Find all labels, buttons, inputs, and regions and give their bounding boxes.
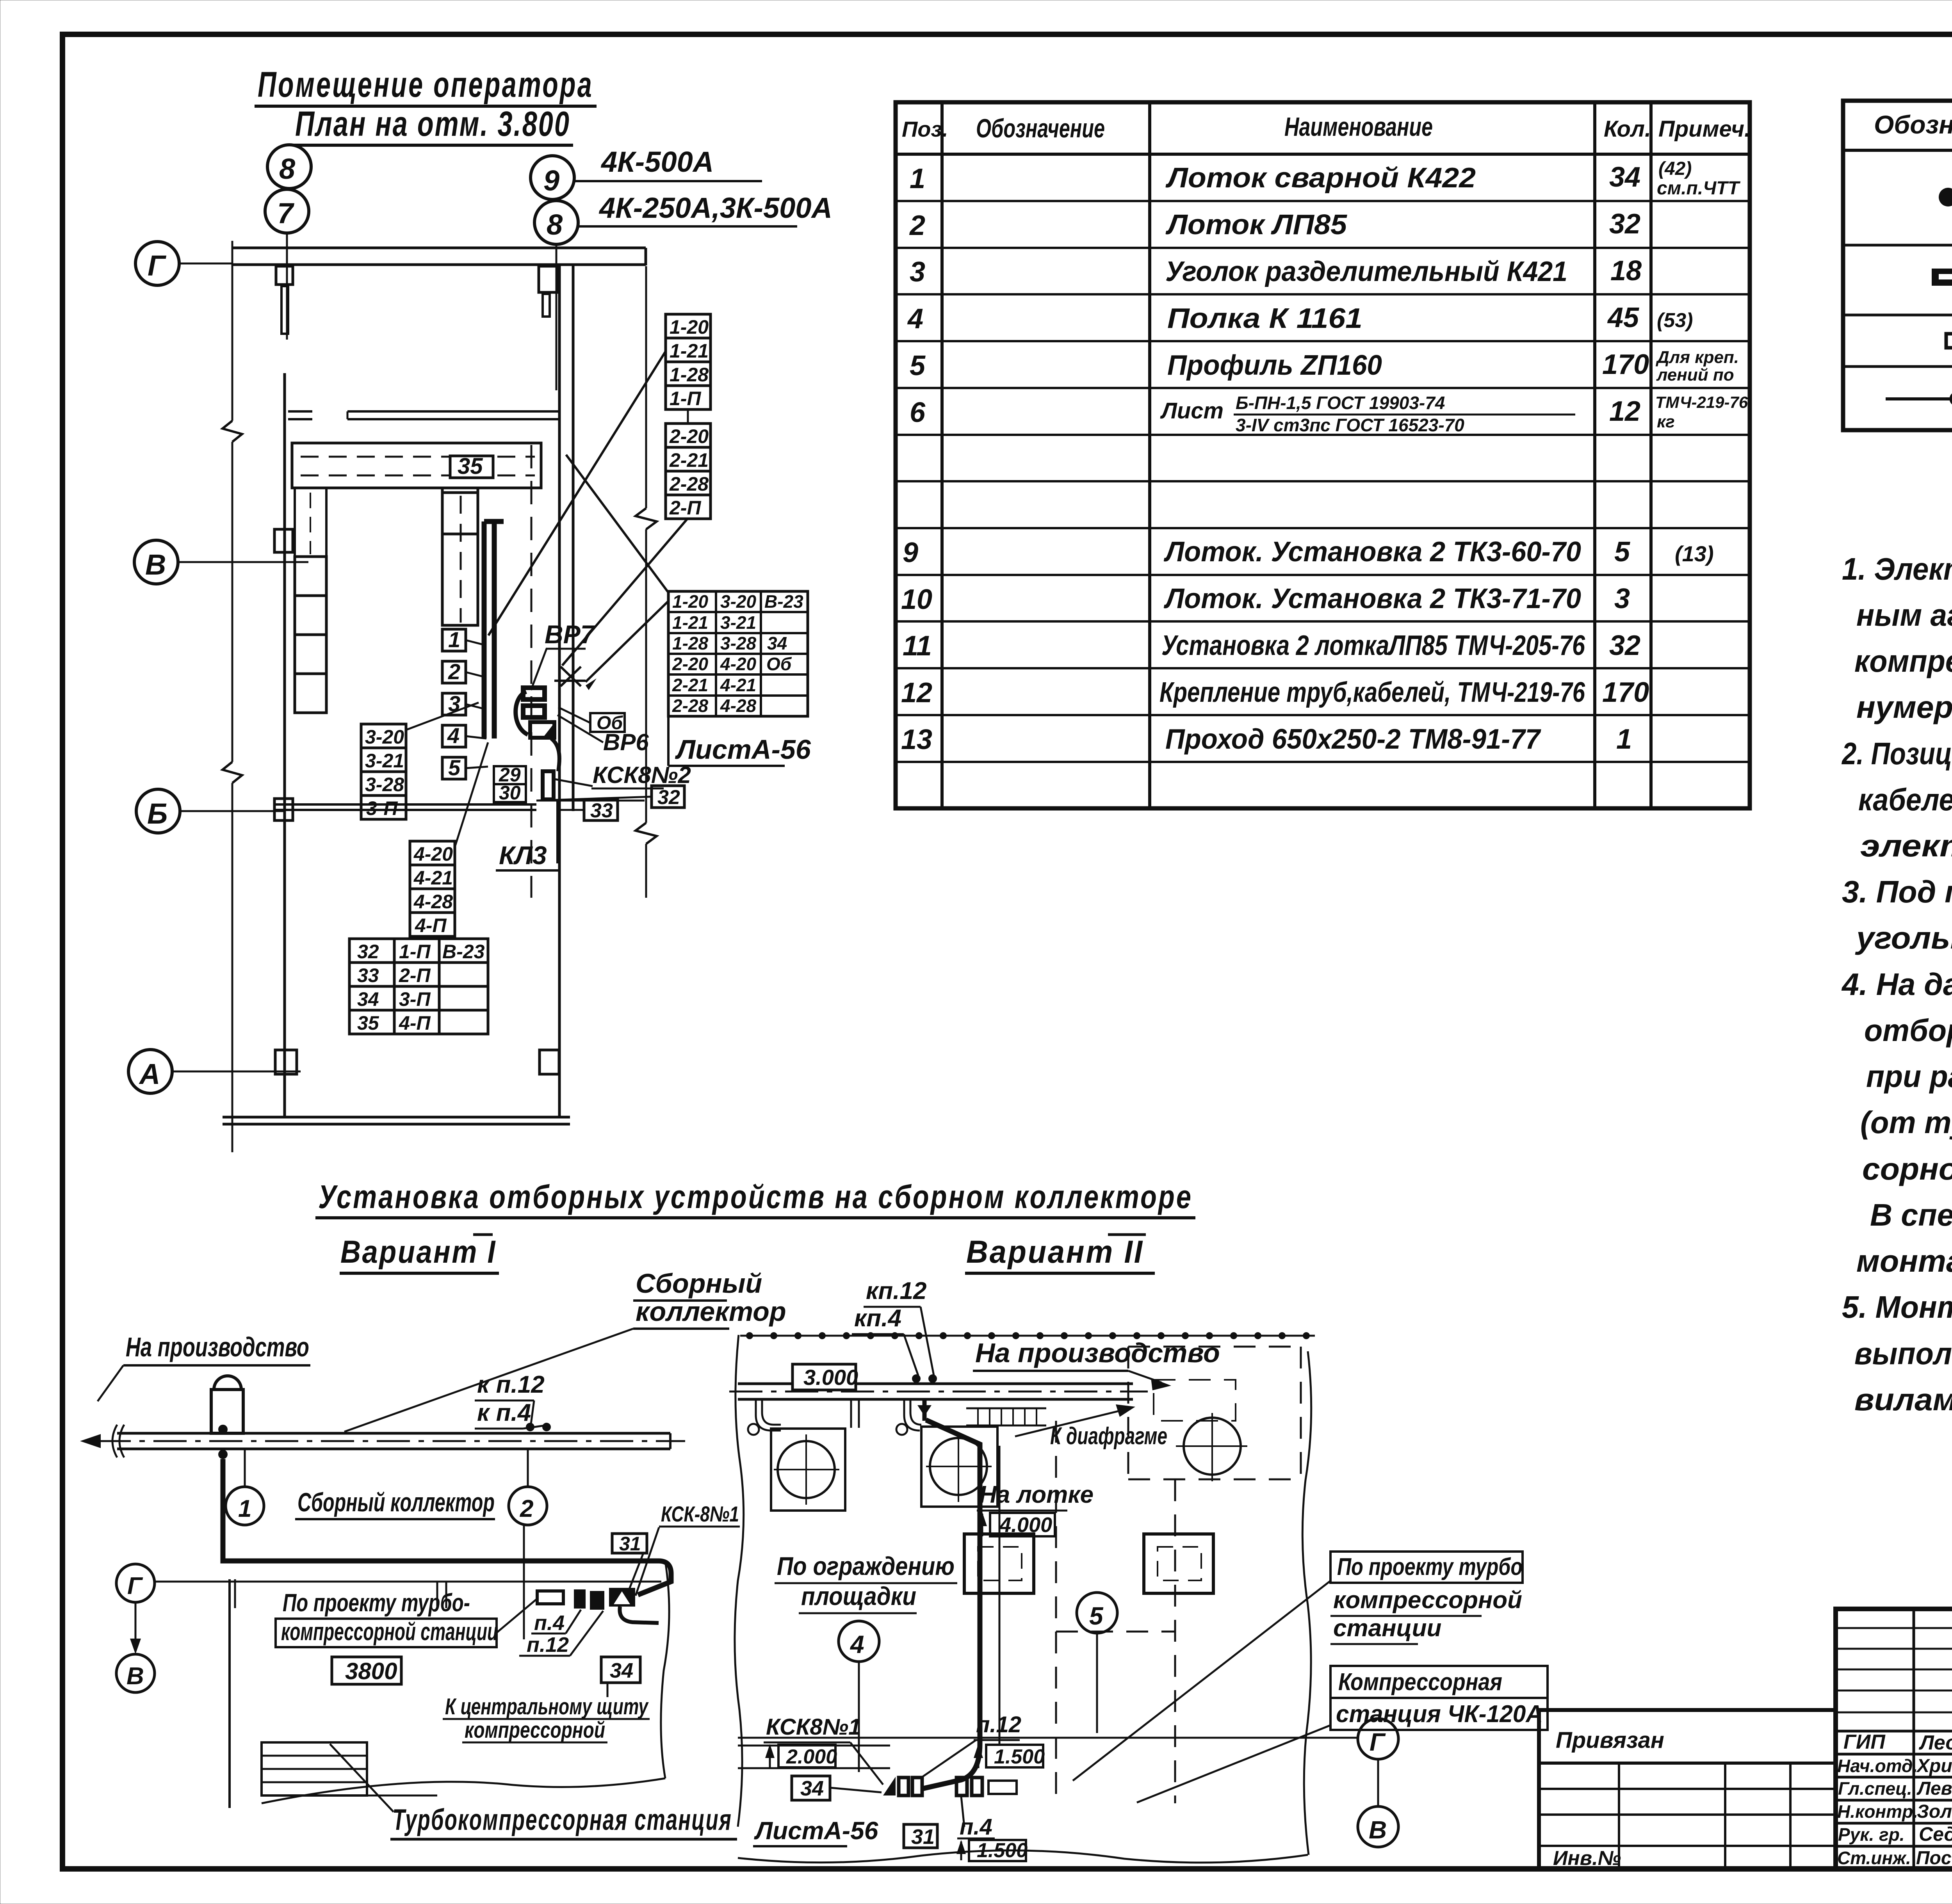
svg-text:компрессорному агрегату №1с: компрессорному агрегату №1с изменением и… xyxy=(1854,644,1952,678)
svg-text:Для креп.: Для креп. xyxy=(1655,348,1739,367)
svg-text:3-20: 3-20 xyxy=(720,591,756,612)
svg-text:В: В xyxy=(126,1663,144,1690)
svg-text:2: 2 xyxy=(520,1495,533,1522)
svg-text:3-21: 3-21 xyxy=(720,612,756,633)
svg-text:12: 12 xyxy=(901,677,932,708)
svg-text:4К-500А: 4К-500А xyxy=(600,146,714,178)
svg-text:компрессорной: компрессорной xyxy=(465,1717,605,1743)
svg-text:Левинский: Левинский xyxy=(1916,1778,1952,1799)
svg-text:Привязан: Привязан xyxy=(1556,1728,1664,1753)
svg-text:4-21: 4-21 xyxy=(413,867,453,889)
svg-text:Установка отборных устройств: Установка отборных устройств на сборном … xyxy=(318,1178,1193,1215)
svg-text:Полка К 1161: Полка К 1161 xyxy=(1167,303,1362,334)
svg-text:Кол.: Кол. xyxy=(1604,116,1651,142)
svg-text:см.п.ЧТТ: см.п.ЧТТ xyxy=(1657,178,1741,199)
svg-text:Г: Г xyxy=(127,1573,143,1600)
svg-text:Посупонько: Посупонько xyxy=(1916,1848,1952,1868)
svg-text:2-21: 2-21 xyxy=(669,449,709,471)
svg-text:Турбокомпрессорная станция: Турбокомпрессорная станция xyxy=(392,1803,732,1836)
svg-text:3: 3 xyxy=(910,256,925,288)
svg-text:А: А xyxy=(139,1058,160,1090)
svg-text:8: 8 xyxy=(279,153,296,185)
svg-text:Крепление труб,кабелей, ТМЧ-21: Крепление труб,кабелей, ТМЧ-219-76 xyxy=(1159,677,1585,708)
svg-text:п.12: п.12 xyxy=(976,1712,1021,1737)
svg-text:КЛ3: КЛ3 xyxy=(499,841,547,870)
svg-text:Обозначение: Обозначение xyxy=(976,114,1105,143)
svg-text:1: 1 xyxy=(238,1495,251,1522)
svg-text:13: 13 xyxy=(901,724,932,755)
svg-text:1-21: 1-21 xyxy=(672,612,708,633)
svg-text:4-П: 4-П xyxy=(399,1012,431,1034)
svg-text:ным агрегатам №2,3,4 аналог: ным агрегатам №2,3,4 аналогичны проводка… xyxy=(1856,598,1952,632)
svg-text:5. Монтаж приборов и сред: 5. Монтаж приборов и средств автоматизац… xyxy=(1842,1290,1952,1324)
svg-text:1-20: 1-20 xyxy=(670,316,709,338)
svg-text:ТМЧ-219-76: ТМЧ-219-76 xyxy=(1655,393,1748,411)
svg-text:Профиль ZП160: Профиль ZП160 xyxy=(1167,350,1382,381)
svg-text:Сборный: Сборный xyxy=(636,1268,762,1299)
svg-text:В-23: В-23 xyxy=(764,591,803,612)
svg-text:32: 32 xyxy=(657,786,680,809)
svg-text:кп.12: кп.12 xyxy=(866,1278,926,1304)
svg-text:сорной станции 4К-120А).: сорной станции 4К-120А). xyxy=(1862,1151,1952,1186)
svg-text:при разных направлениях еео: при разных направлениях еео на производс… xyxy=(1866,1059,1952,1094)
svg-text:3-П: 3-П xyxy=(366,797,398,819)
svg-text:8: 8 xyxy=(547,208,563,241)
svg-text:32: 32 xyxy=(357,941,379,963)
svg-text:ЛистА-56: ЛистА-56 xyxy=(754,1817,878,1845)
svg-text:Компрессорная: Компрессорная xyxy=(1338,1669,1502,1696)
svg-text:Инв.№: Инв.№ xyxy=(1553,1847,1621,1870)
svg-text:4-28: 4-28 xyxy=(720,696,756,716)
svg-text:ВР6: ВР6 xyxy=(603,729,649,755)
svg-text:5: 5 xyxy=(448,755,461,780)
svg-text:Поз.: Поз. xyxy=(902,117,948,141)
svg-text:4-П: 4-П xyxy=(415,915,447,936)
svg-text:2-П: 2-П xyxy=(669,497,701,519)
svg-text:коллектор: коллектор xyxy=(636,1296,786,1327)
svg-text:9: 9 xyxy=(903,537,918,568)
svg-text:Ст.инж.: Ст.инж. xyxy=(1837,1848,1911,1868)
svg-text:электрических проводок.: электрических проводок. xyxy=(1860,828,1952,863)
svg-text:7: 7 xyxy=(277,197,295,230)
svg-text:План на отм. 3.800: План на отм. 3.800 xyxy=(295,105,570,144)
svg-text:кп.4: кп.4 xyxy=(854,1305,901,1332)
svg-text:п.4: п.4 xyxy=(960,1814,992,1840)
svg-text:Помещение оператора: Помещение оператора xyxy=(258,65,593,105)
svg-text:Сборный коллектор: Сборный коллектор xyxy=(297,1488,495,1517)
svg-text:1. Электрические и трубные: 1. Электрические и трубные проводки по к… xyxy=(1842,552,1952,586)
svg-text:3800: 3800 xyxy=(345,1658,397,1684)
svg-text:По ограждению: По ограждению xyxy=(777,1552,955,1580)
svg-text:монтажных материалов для в: монтажных материалов для варианта II xyxy=(1856,1244,1952,1278)
svg-text:3-П: 3-П xyxy=(399,988,431,1010)
svg-text:Об: Об xyxy=(766,654,792,674)
svg-text:Гл.спец.: Гл.спец. xyxy=(1838,1778,1912,1799)
svg-text:32: 32 xyxy=(1609,208,1640,240)
svg-text:1-28: 1-28 xyxy=(670,364,709,386)
svg-text:2-20: 2-20 xyxy=(669,425,709,447)
svg-text:1-28: 1-28 xyxy=(672,633,708,653)
svg-text:3-21: 3-21 xyxy=(365,750,404,772)
svg-text:2-20: 2-20 xyxy=(672,654,708,674)
svg-text:4-28: 4-28 xyxy=(413,891,453,913)
svg-text:выполнить согласно строитель: выполнить согласно строительным нормам и… xyxy=(1854,1336,1952,1371)
svg-text:Установка 2 лоткаЛП85 ТМЧ-205-: Установка 2 лоткаЛП85 ТМЧ-205-76 xyxy=(1161,630,1585,661)
svg-text:КСК-8№1: КСК-8№1 xyxy=(661,1502,739,1526)
svg-text:2-П: 2-П xyxy=(399,964,431,986)
svg-text:Г: Г xyxy=(1370,1728,1386,1756)
svg-text:18: 18 xyxy=(1610,255,1642,286)
svg-text:1-21: 1-21 xyxy=(670,340,709,362)
svg-text:Г: Г xyxy=(148,249,167,282)
svg-text:отборных устройств на сбор: отборных устройств на сборном коллекторе xyxy=(1864,1013,1952,1048)
svg-text:34: 34 xyxy=(357,988,379,1010)
svg-text:Обозначение: Обозначение xyxy=(1874,110,1952,139)
svg-text:Б-ПН-1,5 ГОСТ 19903-74: Б-ПН-1,5 ГОСТ 19903-74 xyxy=(1236,393,1445,413)
svg-text:площадки: площадки xyxy=(801,1582,916,1610)
svg-text:К диафрагме: К диафрагме xyxy=(1050,1423,1167,1450)
svg-text:30: 30 xyxy=(499,782,521,804)
svg-text:п.12: п.12 xyxy=(527,1633,569,1657)
svg-text:2-21: 2-21 xyxy=(672,675,708,695)
svg-text:4-21: 4-21 xyxy=(720,675,756,695)
svg-text:2-28: 2-28 xyxy=(669,473,709,495)
svg-text:45: 45 xyxy=(1607,302,1639,333)
svg-text:Золотарева: Золотарева xyxy=(1917,1801,1952,1822)
svg-text:В спецификации в скобках: В спецификации в скобках указано количес… xyxy=(1870,1198,1952,1232)
svg-text:3-IV ст3пс ГОСТ 16523-70: 3-IV ст3пс ГОСТ 16523-70 xyxy=(1236,415,1464,435)
svg-text:2.000: 2.000 xyxy=(786,1746,837,1768)
svg-text:Н.контр.: Н.контр. xyxy=(1837,1801,1918,1822)
svg-text:2: 2 xyxy=(448,659,460,684)
svg-text:Леонов: Леонов xyxy=(1918,1731,1952,1754)
svg-text:1-П: 1-П xyxy=(670,388,701,409)
svg-text:31: 31 xyxy=(619,1533,641,1555)
svg-text:Вариант II: Вариант II xyxy=(966,1234,1144,1270)
svg-text:34: 34 xyxy=(800,1777,824,1800)
svg-text:3: 3 xyxy=(1614,583,1630,614)
svg-text:ЛистА-56: ЛистА-56 xyxy=(675,734,811,765)
svg-text:1: 1 xyxy=(1616,724,1632,755)
svg-text:31: 31 xyxy=(911,1825,935,1849)
svg-text:ВР7: ВР7 xyxy=(545,620,596,649)
svg-text:4. На данном листе даны ва: 4. На данном листе даны варианты размеще… xyxy=(1841,967,1952,1002)
svg-text:лений по: лений по xyxy=(1656,365,1734,384)
svg-text:к п.4: к п.4 xyxy=(477,1399,531,1426)
svg-text:кг: кг xyxy=(1657,412,1675,431)
svg-text:В: В xyxy=(1369,1816,1387,1844)
svg-text:По проекту турбо: По проекту турбо xyxy=(1337,1553,1523,1580)
svg-text:компрессорной станции: компрессорной станции xyxy=(281,1618,498,1646)
svg-text:Лист: Лист xyxy=(1160,398,1224,424)
svg-text:Проход 650х250-2 ТМ8-91-77: Проход 650х250-2 ТМ8-91-77 xyxy=(1165,724,1541,755)
svg-text:ГИП: ГИП xyxy=(1843,1731,1886,1753)
svg-text:2-28: 2-28 xyxy=(672,696,708,716)
svg-text:3-20: 3-20 xyxy=(365,726,404,748)
svg-text:9: 9 xyxy=(543,164,559,197)
svg-text:34: 34 xyxy=(1609,162,1640,193)
svg-text:Наименование: Наименование xyxy=(1284,112,1433,142)
svg-text:К центральному щиту: К центральному щиту xyxy=(445,1694,649,1719)
svg-text:170: 170 xyxy=(1602,349,1649,380)
svg-text:33: 33 xyxy=(357,964,379,986)
svg-text:Примеч.: Примеч. xyxy=(1658,116,1751,142)
svg-text:В-23: В-23 xyxy=(442,941,485,963)
svg-text:Христофаров: Христофаров xyxy=(1916,1756,1952,1776)
svg-text:10: 10 xyxy=(901,584,932,615)
svg-text:3-28: 3-28 xyxy=(720,633,756,653)
svg-text:(53): (53) xyxy=(1657,309,1693,332)
svg-text:На производство: На производство xyxy=(126,1332,309,1362)
svg-text:4К-250А,3К-500А: 4К-250А,3К-500А xyxy=(598,192,832,224)
svg-text:1: 1 xyxy=(448,627,460,652)
svg-text:Рук. гр.: Рук. гр. xyxy=(1838,1824,1905,1845)
svg-text:1-20: 1-20 xyxy=(672,591,708,612)
svg-text:станции: станции xyxy=(1333,1615,1441,1642)
svg-text:34: 34 xyxy=(610,1659,633,1682)
svg-text:33: 33 xyxy=(590,799,613,822)
svg-text:3.000: 3.000 xyxy=(803,1365,858,1390)
svg-text:32: 32 xyxy=(1609,630,1640,661)
svg-text:По проекту турбо-: По проекту турбо- xyxy=(283,1589,470,1617)
svg-text:станция ЧК-120А: станция ЧК-120А xyxy=(1336,1701,1543,1728)
svg-text:Лоток. Установка 2 ТК3-71-70: Лоток. Установка 2 ТК3-71-70 xyxy=(1163,583,1581,614)
svg-text:Лоток. Установка 2 ТК3-60-70: Лоток. Установка 2 ТК3-60-70 xyxy=(1163,536,1581,568)
svg-text:кабелей и труб соответствую: кабелей и труб соответствуют схемам внеш… xyxy=(1858,782,1952,817)
svg-text:5: 5 xyxy=(1089,1602,1104,1630)
svg-text:6: 6 xyxy=(910,397,926,428)
svg-text:5: 5 xyxy=(1614,536,1630,568)
svg-text:На производство: На производство xyxy=(975,1338,1220,1368)
svg-text:На лотке: На лотке xyxy=(979,1481,1094,1508)
svg-text:35: 35 xyxy=(357,1012,379,1034)
svg-text:4: 4 xyxy=(447,723,460,748)
svg-text:нумерации труб и кабелей.: нумерации труб и кабелей. xyxy=(1856,690,1952,724)
svg-text:34: 34 xyxy=(767,633,787,653)
svg-text:4: 4 xyxy=(907,303,923,335)
svg-text:1-П: 1-П xyxy=(399,941,431,963)
svg-text:4: 4 xyxy=(850,1630,864,1658)
svg-text:КСК8№1: КСК8№1 xyxy=(766,1714,861,1740)
svg-text:1: 1 xyxy=(910,163,925,194)
svg-text:(от турбокомпрессорной станц: (от турбокомпрессорной станции или компр… xyxy=(1860,1105,1952,1140)
svg-text:Б: Б xyxy=(147,797,167,830)
svg-text:Нач.отд.: Нач.отд. xyxy=(1837,1756,1918,1776)
svg-text:11: 11 xyxy=(903,630,932,662)
svg-text:Вариант I: Вариант I xyxy=(340,1234,497,1270)
svg-text:угольниках указана нумерация: угольниках указана нумерация труб и кабе… xyxy=(1855,920,1952,955)
svg-text:3-28: 3-28 xyxy=(365,774,404,795)
svg-text:35: 35 xyxy=(458,454,483,479)
svg-text:Уголок разделительный К421: Уголок разделительный К421 xyxy=(1165,256,1567,287)
svg-text:вилам СНиП III-34-74 Госстр: вилам СНиП III-34-74 Госстроя СССР. xyxy=(1854,1382,1952,1417)
svg-text:2: 2 xyxy=(909,210,925,241)
svg-text:1.500: 1.500 xyxy=(994,1746,1045,1768)
svg-text:12: 12 xyxy=(1609,396,1640,427)
svg-text:(13): (13) xyxy=(1675,541,1714,566)
svg-text:4-20: 4-20 xyxy=(720,654,756,674)
svg-text:4-20: 4-20 xyxy=(413,843,453,865)
svg-text:5: 5 xyxy=(910,350,926,381)
svg-text:п.4: п.4 xyxy=(534,1611,565,1635)
svg-text:3. Под полкой линии- выноск: 3. Под полкой линии- выноски позиций в п… xyxy=(1842,874,1952,909)
svg-text:(42): (42) xyxy=(1658,158,1692,179)
svg-text:Лоток ЛП85: Лоток ЛП85 xyxy=(1165,209,1347,240)
svg-text:Седых: Седых xyxy=(1919,1823,1952,1845)
svg-text:В: В xyxy=(145,548,166,581)
svg-text:170: 170 xyxy=(1602,677,1649,708)
svg-text:2. Позиции монтируемых прибо: 2. Позиции монтируемых приборов и аппара… xyxy=(1841,736,1952,771)
svg-text:компрессорной: компрессорной xyxy=(1333,1587,1522,1614)
svg-text:Лоток сварной К422: Лоток сварной К422 xyxy=(1165,162,1476,194)
svg-text:к п.12: к п.12 xyxy=(477,1371,545,1398)
